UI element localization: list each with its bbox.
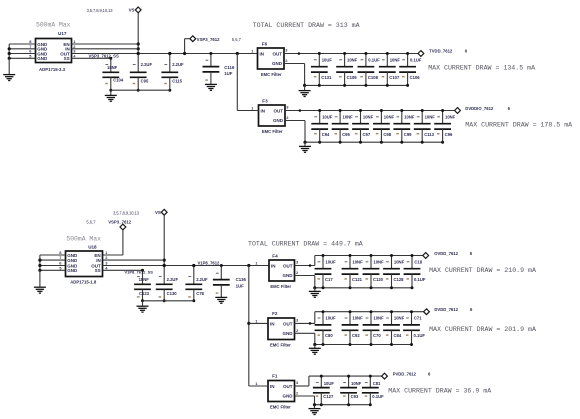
regulator U18 ADP1715-1.8 xyxy=(66,244,103,284)
svg-text:1: 1 xyxy=(251,105,254,110)
capacitor C113 10NF xyxy=(414,109,431,144)
svg-text:OVDD_7612: OVDD_7612 xyxy=(434,251,458,256)
svg-text:EMC Filter: EMC Filter xyxy=(261,72,282,77)
svg-text:EMC Filter: EMC Filter xyxy=(270,342,291,347)
wire F6 OUT rail TVDD_7612 xyxy=(284,53,418,55)
junction VSP3 flag on rail xyxy=(183,52,186,55)
svg-text:1: 1 xyxy=(255,381,258,386)
capacitor C17 10UF xyxy=(315,254,332,289)
wire F3 IN xyxy=(237,110,258,112)
ground C136 xyxy=(215,297,227,303)
svg-text:OUT: OUT xyxy=(283,384,293,389)
wire F3 OUT rail DVDDIO_7612 xyxy=(285,110,455,112)
svg-text:F4: F4 xyxy=(272,254,278,259)
svg-text:C80: C80 xyxy=(325,333,333,338)
svg-text:18NF: 18NF xyxy=(139,277,150,282)
svg-text:10UF: 10UF xyxy=(325,316,336,321)
svg-text:10NF: 10NF xyxy=(404,114,415,119)
svg-text:C123: C123 xyxy=(139,291,150,296)
wire U17 EN to VS xyxy=(72,43,139,45)
svg-text:VSP3_7612_SS: VSP3_7612_SS xyxy=(89,53,119,58)
regulator section VSP3 3.3V — annotations xyxy=(36,8,113,28)
svg-text:IN: IN xyxy=(260,51,265,56)
capacitor C130 2.2UF xyxy=(156,264,173,302)
svg-text:U18: U18 xyxy=(88,244,97,249)
junction on F4 out xyxy=(309,264,312,267)
svg-text:6: 6 xyxy=(508,106,511,111)
capacitor C120 10NF xyxy=(363,254,380,289)
wire gnd drop F1 xyxy=(314,405,316,409)
svg-text:GND: GND xyxy=(273,118,284,123)
svg-text:2: 2 xyxy=(296,328,299,333)
svg-text:5,6,7: 5,6,7 xyxy=(86,219,96,224)
svg-text:C109: C109 xyxy=(347,75,358,80)
svg-text:C104: C104 xyxy=(113,78,124,83)
svg-text:IN: IN xyxy=(261,108,266,113)
capacitor C116 1UF xyxy=(203,52,220,72)
power flag VSP3_7612 (lower) xyxy=(108,219,132,230)
svg-text:10NF: 10NF xyxy=(394,316,405,321)
svg-text:DVDD_7612: DVDD_7612 xyxy=(434,307,458,312)
wire F1 rail riser xyxy=(308,376,310,386)
junction branch to F2/F1 xyxy=(247,264,250,267)
ground lower input caps xyxy=(137,306,149,312)
capacitor C97 10NF xyxy=(352,109,369,144)
svg-text:3: 3 xyxy=(296,318,299,323)
capacitor C95 10NF xyxy=(332,109,349,144)
svg-text:2: 2 xyxy=(296,270,299,275)
svg-text:10NF: 10NF xyxy=(425,114,436,119)
svg-text:C131: C131 xyxy=(321,75,332,80)
junction on F6 out xyxy=(298,52,301,55)
capacitor C96 10NF xyxy=(434,109,451,144)
junction F1 gnd rail xyxy=(313,403,316,406)
junction C115 top xyxy=(168,52,171,55)
wire gnd drop F3 xyxy=(304,142,306,146)
svg-text:6: 6 xyxy=(428,372,431,377)
svg-text:500mA Max: 500mA Max xyxy=(36,21,71,28)
capacitor C71 0.1UF xyxy=(403,310,420,346)
svg-text:OUT: OUT xyxy=(273,51,283,56)
EMC filter F4 xyxy=(269,254,295,289)
wire F4 rail riser xyxy=(314,256,316,266)
power flag DVDDIO_7612 xyxy=(455,106,511,113)
svg-text:VS: VS xyxy=(129,8,135,13)
capacitor C104 10NF (SS) xyxy=(102,57,119,92)
junction F2 gnd rail xyxy=(313,343,316,346)
svg-text:OUT: OUT xyxy=(283,263,293,268)
svg-text:C108: C108 xyxy=(368,75,379,80)
EMC filter F6 xyxy=(258,41,285,77)
wire U18 GND pins to ground bus xyxy=(40,255,66,270)
capacitor C121 10NF xyxy=(342,254,359,289)
svg-text:500mA Max: 500mA Max xyxy=(66,235,101,242)
wire U17 SS to C104 xyxy=(72,57,111,60)
wire gnd drop F4 xyxy=(314,288,316,292)
junction VS/C95 column xyxy=(137,52,140,55)
svg-text:1UF: 1UF xyxy=(236,284,244,289)
svg-text:OUT: OUT xyxy=(274,108,284,113)
ground F2 row xyxy=(309,348,321,354)
wire F4 OUT to rail riser xyxy=(295,265,315,267)
wire F3 row bottom rail xyxy=(305,141,443,143)
wire VSP3 flag down to U18 EN xyxy=(103,230,123,255)
F1 pin numbers xyxy=(255,380,299,396)
junction F4 gnd rail xyxy=(313,286,316,289)
svg-text:2.2UF: 2.2UF xyxy=(172,62,184,67)
wire U17 GND pins to ground bus xyxy=(9,44,35,58)
svg-text:10NF: 10NF xyxy=(347,57,358,62)
svg-text:4: 4 xyxy=(105,265,108,270)
svg-text:C106: C106 xyxy=(410,75,421,80)
junction F6 gnd rail xyxy=(303,84,306,87)
svg-text:VSP3_7612: VSP3_7612 xyxy=(108,219,132,224)
wire F1 top rail PVDD_7612 xyxy=(309,375,382,377)
capacitor C115 2.2UF xyxy=(161,52,178,92)
junction branch at F2 xyxy=(247,322,250,325)
svg-text:SS: SS xyxy=(95,268,101,273)
capacitor C18 0.1UF xyxy=(404,254,421,289)
svg-text:7: 7 xyxy=(59,255,62,260)
wire ground bus drop xyxy=(8,58,10,74)
svg-text:TOTAL CURRENT DRAW = 449.7 mA: TOTAL CURRENT DRAW = 449.7 mA xyxy=(248,241,363,248)
wire branch down to F2 and F1 xyxy=(248,266,250,387)
svg-text:C127: C127 xyxy=(323,394,334,399)
svg-text:3,5,7,8,9,10,13: 3,5,7,8,9,10,13 xyxy=(113,210,140,215)
wire F2 top rail DVDD_7612 xyxy=(315,311,424,313)
svg-text:C95: C95 xyxy=(342,132,350,137)
svg-text:10UF: 10UF xyxy=(324,381,335,386)
svg-text:F2: F2 xyxy=(272,311,278,316)
svg-text:C81: C81 xyxy=(373,381,381,386)
svg-text:10NF: 10NF xyxy=(384,114,395,119)
svg-text:GND: GND xyxy=(37,56,48,61)
wire lower ground bus drop xyxy=(39,270,41,287)
svg-text:VS: VS xyxy=(155,210,161,215)
wire F2 GND xyxy=(295,333,315,344)
svg-text:C97: C97 xyxy=(363,132,371,137)
svg-text:MAX CURRENT DRAW = 36.9 mA: MAX CURRENT DRAW = 36.9 mA xyxy=(388,388,491,395)
wire VSP3_7612 flag to rail xyxy=(185,39,190,54)
junction ground bus xyxy=(8,47,11,60)
svg-text:C136: C136 xyxy=(236,277,247,282)
capacitor C99 10NF xyxy=(393,109,410,144)
wire F6 row bottom rail xyxy=(305,84,408,86)
svg-text:0.1UF: 0.1UF xyxy=(414,277,426,282)
wire gnd drop F2 xyxy=(314,345,316,349)
capacitor C131 10UF xyxy=(311,52,328,87)
capacitor C78 2.2UF xyxy=(185,264,202,302)
junction branch to F3 xyxy=(236,52,239,55)
ground C116 xyxy=(205,84,217,90)
wire F3 GND xyxy=(285,121,305,143)
svg-text:18NF: 18NF xyxy=(107,65,118,70)
svg-text:10NF: 10NF xyxy=(373,316,384,321)
svg-text:GND: GND xyxy=(283,394,294,399)
svg-text:C115: C115 xyxy=(172,78,182,83)
wire U17 OUT rail VSP3_7612 to F6 xyxy=(72,53,258,55)
wire input caps bottom rail xyxy=(111,89,170,91)
svg-text:DVDDIO_7612: DVDDIO_7612 xyxy=(465,106,494,111)
junction lower ground bus xyxy=(38,259,41,272)
svg-text:F1: F1 xyxy=(272,374,278,379)
capacitor C80 10UF xyxy=(315,310,332,346)
svg-text:C121: C121 xyxy=(352,277,363,282)
svg-text:2: 2 xyxy=(296,391,299,396)
wire F1 GND xyxy=(295,396,315,405)
capacitor C98 10NF xyxy=(373,109,390,144)
svg-text:6: 6 xyxy=(470,251,473,256)
capacitor C109 10NF xyxy=(336,52,353,87)
svg-text:0.1UF: 0.1UF xyxy=(368,57,380,62)
wire gnd drop F6 xyxy=(304,85,306,90)
svg-text:TOTAL CURRENT DRAW = 313 mA: TOTAL CURRENT DRAW = 313 mA xyxy=(253,22,360,29)
svg-text:C130: C130 xyxy=(167,291,178,296)
svg-text:EMC Filter: EMC Filter xyxy=(270,284,291,289)
svg-text:C71: C71 xyxy=(414,316,422,321)
capacitor C136 1UF xyxy=(213,264,230,285)
ground F4 row xyxy=(309,291,321,297)
svg-text:C120: C120 xyxy=(373,277,384,282)
power flag VS (lower) xyxy=(155,209,167,215)
capacitor C94 10UF xyxy=(311,109,328,144)
capacitor C108 0.1UF xyxy=(358,52,375,87)
svg-text:C18: C18 xyxy=(414,259,422,264)
F6 pin numbers xyxy=(251,48,288,64)
wire U18 SS to C123 xyxy=(103,269,143,272)
svg-text:MAX CURRENT DRAW = 210.9 mA: MAX CURRENT DRAW = 210.9 mA xyxy=(429,267,536,274)
svg-text:C94: C94 xyxy=(322,132,330,137)
svg-text:10NF: 10NF xyxy=(343,114,354,119)
svg-text:GND: GND xyxy=(67,268,78,273)
svg-text:2.2UF: 2.2UF xyxy=(196,277,208,282)
wire U18 OUT rail V1P8_7612 to F4 xyxy=(103,265,270,267)
wire F2 rail riser xyxy=(314,312,316,324)
svg-text:10UF: 10UF xyxy=(322,57,333,62)
junction on F2 out xyxy=(309,322,312,325)
svg-text:10NF: 10NF xyxy=(373,259,384,264)
U18 pin numbers xyxy=(59,250,108,270)
svg-text:ADP1715-1.8: ADP1715-1.8 xyxy=(70,280,97,285)
svg-text:IN: IN xyxy=(271,263,276,268)
svg-text:C116: C116 xyxy=(224,65,235,70)
svg-text:6: 6 xyxy=(470,307,473,312)
wire F1 row bottom rail xyxy=(315,404,371,406)
svg-text:3: 3 xyxy=(296,380,299,385)
svg-text:C113: C113 xyxy=(424,132,434,137)
ground input caps xyxy=(105,95,117,101)
svg-text:10NF: 10NF xyxy=(390,57,401,62)
ground F6 row xyxy=(299,91,311,97)
capacitor C84 10NF xyxy=(383,310,400,346)
svg-text:2.2UF: 2.2UF xyxy=(167,277,179,282)
svg-text:C92: C92 xyxy=(352,333,360,338)
junction VS/IN lower xyxy=(163,259,166,262)
svg-text:C95: C95 xyxy=(141,78,149,83)
ground F1 row xyxy=(309,409,321,415)
svg-text:10UF: 10UF xyxy=(322,114,333,119)
svg-text:PVDD_7612: PVDD_7612 xyxy=(393,372,417,377)
svg-text:IN: IN xyxy=(270,321,275,326)
svg-text:10UF: 10UF xyxy=(325,259,336,264)
ground U17 xyxy=(3,75,15,81)
wire VS vertical to 3.3V input rail xyxy=(137,13,139,54)
svg-text:C84: C84 xyxy=(394,333,402,338)
power flag VS (top) xyxy=(129,7,142,13)
svg-text:U17: U17 xyxy=(58,31,67,36)
svg-text:1UF: 1UF xyxy=(224,71,232,76)
junction C78 top xyxy=(192,264,195,267)
power flag PVDD_7612 xyxy=(382,372,431,379)
wire F4 GND xyxy=(295,276,315,288)
svg-text:GND: GND xyxy=(67,258,78,263)
wire F2 row bottom rail xyxy=(315,344,412,346)
svg-text:1: 1 xyxy=(251,48,254,53)
power flag OVDD_7612 xyxy=(423,251,473,258)
svg-text:C17: C17 xyxy=(325,277,333,282)
junction on F3 out xyxy=(299,109,302,112)
capacitor C95 2.2UF xyxy=(130,52,147,92)
svg-text:10NF: 10NF xyxy=(352,316,363,321)
capacitor C81 0.1UF xyxy=(362,375,379,407)
svg-text:IN: IN xyxy=(96,258,101,263)
capacitor C70 10NF xyxy=(363,310,380,346)
svg-text:C78: C78 xyxy=(196,291,204,296)
svg-text:SS: SS xyxy=(64,56,70,61)
wire ground drop under C123 xyxy=(142,301,144,306)
svg-text:C96: C96 xyxy=(445,132,453,137)
svg-text:VSP3_7612: VSP3_7612 xyxy=(197,37,221,42)
svg-text:F6: F6 xyxy=(262,41,268,46)
wire F1 OUT to rail riser xyxy=(295,385,309,387)
svg-text:2: 2 xyxy=(105,255,108,260)
wire F1 IN xyxy=(249,385,268,387)
svg-text:3: 3 xyxy=(286,105,289,110)
svg-text:C70: C70 xyxy=(373,333,381,338)
svg-text:MAX CURRENT DRAW = 178.5 mA: MAX CURRENT DRAW = 178.5 mA xyxy=(465,122,572,129)
svg-text:F3: F3 xyxy=(262,98,268,103)
svg-text:C93: C93 xyxy=(351,394,359,399)
svg-text:C98: C98 xyxy=(383,132,391,137)
EMC filter F1 xyxy=(268,374,295,410)
svg-text:0.1UF: 0.1UF xyxy=(372,394,384,399)
regulator section V1P8 1.8V — annotations xyxy=(66,210,139,242)
ground F3 row xyxy=(299,146,311,152)
svg-text:3,5,7,8,9,10,13: 3,5,7,8,9,10,13 xyxy=(87,8,114,13)
svg-text:V1P8_7612: V1P8_7612 xyxy=(198,261,221,266)
svg-text:TVDD_7612: TVDD_7612 xyxy=(429,49,453,54)
svg-text:5: 5 xyxy=(29,53,32,58)
capacitor C128 10NF xyxy=(383,254,400,289)
svg-text:10NF: 10NF xyxy=(363,114,374,119)
junction VS/EN xyxy=(137,42,140,45)
junction F3 gnd rail xyxy=(303,141,306,144)
wire ground drop under C104 xyxy=(110,90,112,95)
svg-text:0.1UF: 0.1UF xyxy=(414,333,426,338)
junction VS/IN xyxy=(137,47,140,50)
svg-text:3: 3 xyxy=(285,48,288,53)
capacitor C106 0.1UF xyxy=(399,52,416,87)
capacitor C93 10NF xyxy=(340,375,357,407)
svg-text:4: 4 xyxy=(73,53,76,58)
svg-text:C99: C99 xyxy=(404,132,412,137)
svg-text:10NF: 10NF xyxy=(445,114,456,119)
F3 pin numbers xyxy=(251,105,289,121)
wire F2 OUT to rail riser xyxy=(295,322,315,324)
svg-text:EMC Filter: EMC Filter xyxy=(262,129,283,134)
svg-text:C107: C107 xyxy=(389,75,400,80)
regulator U17 ADP1715-3.3 xyxy=(36,31,72,72)
svg-text:5,6,7: 5,6,7 xyxy=(232,37,242,42)
EMC filter F3 xyxy=(259,98,286,134)
capacitor C92 10NF xyxy=(342,310,359,346)
power flag VSP3_7612 (top) xyxy=(190,36,242,42)
capacitor C107 10NF xyxy=(379,52,396,87)
svg-text:GND: GND xyxy=(283,331,294,336)
svg-text:2.2UF: 2.2UF xyxy=(141,62,153,67)
svg-text:C128: C128 xyxy=(394,277,405,282)
svg-text:IN: IN xyxy=(270,384,275,389)
svg-text:6: 6 xyxy=(465,49,468,54)
wire U18 IN to VS xyxy=(103,259,165,261)
svg-text:2: 2 xyxy=(285,58,288,63)
svg-text:MAX CURRENT DRAW = 201.9 mA: MAX CURRENT DRAW = 201.9 mA xyxy=(429,326,536,333)
wire VS vertical to 1.8V rail xyxy=(163,215,165,265)
power flag DVDD_7612 xyxy=(424,307,473,314)
EMC filter F2 xyxy=(268,311,295,347)
wire F4 row bottom rail xyxy=(315,287,412,289)
power flag TVDD_7612 xyxy=(418,49,468,57)
svg-text:0.1UF: 0.1UF xyxy=(410,57,422,62)
wire U17 IN to VS xyxy=(72,48,139,50)
svg-text:EMC Filter: EMC Filter xyxy=(270,404,291,409)
svg-text:1: 1 xyxy=(255,318,258,323)
svg-text:5: 5 xyxy=(59,265,62,270)
svg-text:10NF: 10NF xyxy=(352,259,363,264)
svg-text:1: 1 xyxy=(255,260,258,265)
wire lower input caps bottom rail xyxy=(143,300,194,302)
U17 pin numbers xyxy=(29,39,76,58)
F2 pin numbers xyxy=(255,318,299,334)
wire F4 top rail OVDD_7612 xyxy=(315,255,423,257)
svg-text:2: 2 xyxy=(286,115,289,120)
F4 pin numbers xyxy=(255,260,299,276)
svg-text:V1P8_7612_SS: V1P8_7612_SS xyxy=(125,269,154,274)
svg-text:10NF: 10NF xyxy=(351,381,362,386)
capacitor C127 10UF xyxy=(313,375,330,407)
ground U18 xyxy=(34,287,46,293)
svg-text:GND: GND xyxy=(283,273,294,278)
wire F2 IN xyxy=(249,322,268,324)
svg-text:GND: GND xyxy=(272,61,283,66)
wire branch down to F3 IN xyxy=(236,54,238,111)
svg-text:ADP1715-3.3: ADP1715-3.3 xyxy=(39,67,66,72)
wire F6 GND xyxy=(284,64,305,86)
svg-text:3: 3 xyxy=(296,260,299,265)
svg-text:MAX CURRENT DRAW = 134.5 mA: MAX CURRENT DRAW = 134.5 mA xyxy=(428,65,535,72)
junction VS/C130 column xyxy=(163,264,166,267)
svg-text:10NF: 10NF xyxy=(394,259,405,264)
svg-text:OUT: OUT xyxy=(283,321,293,326)
capacitor C123 10NF (SS) xyxy=(134,269,151,303)
